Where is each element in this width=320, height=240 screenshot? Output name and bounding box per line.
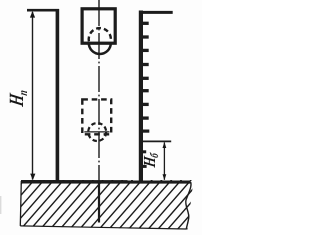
ground left edge [20,181,21,226]
staff tick 3 [143,49,149,52]
staff tick 10 (short, below pile-head line) [143,150,147,153]
staff tick 9 [143,130,150,133]
striker ball upper hidden arc (dashed circle top) [89,28,111,41]
left vertical post [56,9,60,181]
crosshair of striker ball (horizontal) [85,43,115,45]
top crossbar of left gallows post [27,9,59,12]
crosshair of dashed ball (horizontal) [84,131,109,133]
arrowhead top of H_p dimension line [30,11,35,18]
striker ball at impact (dashed circle) [88,123,106,141]
dimension line H_p (vertical, left) [32,12,34,180]
ram block (upper position, solid rectangle) [82,9,115,43]
label H_b (rotated) [141,150,162,170]
vertical center line / axis (dash-dot) [98,0,100,181]
arrowhead bottom of H_p dimension line [30,174,35,181]
striker ball lower solid arc [89,43,111,54]
staff tick 6 [143,89,149,92]
staff tick 2 [143,35,149,38]
staff tick 4 [143,63,149,66]
staff tick 7 [143,103,149,106]
ground bottom edge [20,226,186,229]
pile driven into ground (below surface) [98,181,100,223]
dimension line H_b (vertical, right) [163,142,165,179]
pile head level line (horizontal) [143,140,172,142]
staff tick 1 [143,22,149,25]
ground right edge [186,182,191,229]
label H_p (rotated) [5,87,30,109]
staff tick 5 [143,77,149,80]
arrowhead bottom of H_b dimension line [163,174,167,180]
ground top edge [21,180,191,184]
ram block at impact position (dashed rectangle) [82,99,111,134]
staff tick 8 [143,116,149,119]
graduated staff vertical line (right) [139,11,143,182]
page-edge scan smudge (left margin) [0,196,1,214]
staff tick 11 (short) [143,165,147,168]
arrowhead top of H_b dimension line [163,142,167,148]
staff top bar [139,11,173,14]
